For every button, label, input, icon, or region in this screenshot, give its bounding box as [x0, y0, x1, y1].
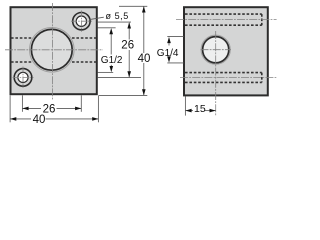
- dimension 40 right: top extension: [119, 5, 147, 7]
- bottom dim 40: left extension: [9, 95, 11, 122]
- bottom dim 26: right extension: [80, 95, 82, 112]
- dimension 40 right line: [143, 6, 145, 53]
- bore bottom tangent extension: [98, 71, 114, 73]
- port G1/4 thread arc: [201, 35, 230, 64]
- G1/4 upper arrow: [168, 43, 170, 46]
- side view bottom hole centerline: [180, 77, 276, 79]
- bottom dim 40: right extension: [97, 95, 99, 122]
- port G1/4 circle: [203, 37, 229, 63]
- svg-text:40: 40: [138, 53, 151, 65]
- bore horizontal centerline: [5, 49, 103, 51]
- top hole horizontal centerline: [71, 20, 92, 22]
- svg-text:40: 40: [33, 114, 46, 126]
- bottom hole vertical centerline: [22, 67, 24, 89]
- bore vertical centerline: [51, 3, 53, 100]
- G1/2 dimension upper arrow: [110, 34, 112, 55]
- bottom dim 26: left extension: [21, 95, 23, 112]
- side view top hole centerline: [176, 19, 277, 21]
- G1/4 lower arrow: [168, 58, 170, 59]
- flange body (front view): [11, 7, 97, 94]
- bottom hole horizontal centerline: [13, 76, 34, 78]
- side view block: [184, 7, 268, 95]
- bore G1/2 circle: [31, 29, 72, 70]
- G1/4 bottom tangent extension: [167, 62, 183, 64]
- dim 15 line: [185, 110, 193, 112]
- G1/4 top tangent extension: [167, 36, 183, 38]
- mounting hole top-right counterbore: [73, 13, 90, 30]
- port horizontal centerline: [201, 49, 232, 51]
- svg-text:15: 15: [194, 103, 206, 115]
- hidden cross-port line upper: [11, 37, 97, 39]
- leader line hole diameter: [90, 17, 104, 19]
- top hole vertical centerline: [80, 11, 82, 32]
- mounting hole top-right bore: [76, 16, 86, 26]
- dimension 40 right: bottom extension: [99, 94, 147, 96]
- side view bottom hole hidden lines: [185, 73, 262, 83]
- bore G1/2 thread arc: [30, 28, 75, 73]
- dimension 26 vertical line: [128, 23, 130, 40]
- svg-text:G1/4: G1/4: [157, 48, 179, 59]
- mounting hole bottom-left bore: [18, 72, 28, 82]
- bottom dim 26 line: [22, 107, 41, 109]
- svg-text:ø 5,5: ø 5,5: [106, 11, 129, 21]
- side view top hole hidden lines: [185, 14, 262, 25]
- svg-text:26: 26: [121, 40, 134, 52]
- svg-text:G1/2: G1/2: [101, 55, 123, 66]
- G1/2 dimension lower arrow: [110, 65, 112, 67]
- hidden cross-port line lower: [11, 61, 97, 63]
- bore top tangent extension: [98, 27, 116, 29]
- bottom dim 40 line: [10, 118, 31, 120]
- top hole centerline extension right: [98, 21, 131, 23]
- mounting hole bottom-left counterbore: [14, 69, 32, 87]
- bottom hole centerline extension right: [98, 77, 141, 79]
- dim 15: left extension: [184, 96, 186, 115]
- port vertical centerline: [215, 31, 217, 115]
